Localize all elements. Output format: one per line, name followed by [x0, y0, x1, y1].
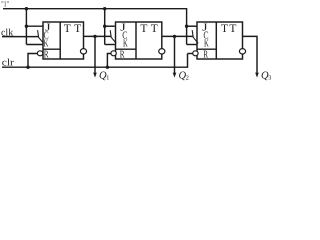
junction Q2 tap: [173, 35, 176, 38]
wire K3 horizontal: [187, 44, 198, 46]
reset bubble U2: [111, 51, 116, 56]
reset bubble U3: [193, 51, 198, 56]
wire Q2 to C3: [162, 35, 193, 37]
flip-flop U2 (JK, GOST TT symbol): [110, 22, 162, 59]
pin labels U2: [120, 22, 158, 60]
junction rail/J1 drop: [25, 7, 28, 10]
junction clr/R2: [106, 66, 109, 69]
wire clk input: [2, 36, 39, 38]
junction dots: [25, 7, 259, 78]
svg-text:R: R: [203, 49, 208, 60]
svg-text:T: T: [229, 23, 236, 35]
svg-text:1: 1: [106, 75, 109, 82]
svg-text:T: T: [64, 23, 71, 35]
inverted output bubble U1: [80, 49, 86, 54]
flip-flop U1 (JK, GOST TT symbol): [38, 22, 84, 59]
svg-text:R: R: [44, 49, 49, 60]
svg-text:T: T: [151, 23, 158, 35]
junction clr/R1: [26, 66, 29, 69]
arrowhead output QA: [93, 73, 97, 78]
svg-text:T: T: [140, 23, 147, 35]
wire J1 horizontal: [26, 25, 42, 27]
label output QB: [179, 70, 189, 81]
wire K1 horizontal: [26, 44, 42, 46]
junction J3: [185, 25, 188, 28]
wire Q3 to output arrow: [243, 36, 258, 73]
junction J2: [103, 25, 106, 28]
inverted output bubble U3: [239, 49, 245, 54]
reset bubble U1: [37, 51, 42, 56]
wire J2 horizontal: [105, 25, 115, 27]
wire Q2 drop to output arrow: [174, 36, 176, 73]
wire K2 horizontal: [105, 44, 115, 46]
label output QA: [99, 70, 109, 81]
flip-flop U3 (JK, GOST TT symbol): [192, 22, 242, 59]
svg-text:K: K: [44, 38, 49, 49]
svg-text:clk: clk: [1, 27, 13, 38]
wire Q1 to C2: [84, 35, 112, 37]
wire rail drop FF1 J/K: [25, 9, 27, 45]
svg-text:K: K: [123, 38, 128, 49]
svg-text:2: 2: [186, 75, 189, 82]
pin labels U3: [202, 22, 236, 60]
wire R3 horizontal: [188, 53, 193, 55]
dynamic clock notch U1: [38, 30, 44, 43]
svg-text:T: T: [221, 23, 228, 35]
wire J3 horizontal: [187, 25, 198, 27]
wire rail drop FF2 J/K: [104, 9, 106, 45]
label output QC: [261, 70, 271, 81]
svg-text:3: 3: [268, 75, 271, 82]
arrowhead output QB: [173, 73, 177, 78]
svg-text:clr: clr: [2, 58, 15, 69]
inverted output bubble U2: [159, 49, 165, 54]
node "1" logic-high rail: [3, 9, 187, 45]
wire clr bottom rail: [2, 54, 188, 68]
svg-text:K: K: [204, 38, 209, 49]
arrowhead output QC: [255, 73, 259, 78]
junction rail/J2 drop: [103, 7, 106, 10]
dynamic clock notch U3: [192, 30, 198, 43]
dynamic clock notch U2: [110, 30, 116, 43]
svg-text:R: R: [120, 49, 125, 60]
wire Q1 drop to output arrow: [94, 36, 96, 73]
wire clr branch R1: [28, 54, 37, 68]
svg-text:T: T: [74, 23, 81, 35]
junction Q1 tap: [93, 35, 96, 38]
junction J1: [25, 25, 28, 28]
pin labels U1: [44, 22, 82, 60]
wire clr branch R2: [107, 54, 110, 68]
svg-text:"1": "1": [1, 0, 9, 8]
